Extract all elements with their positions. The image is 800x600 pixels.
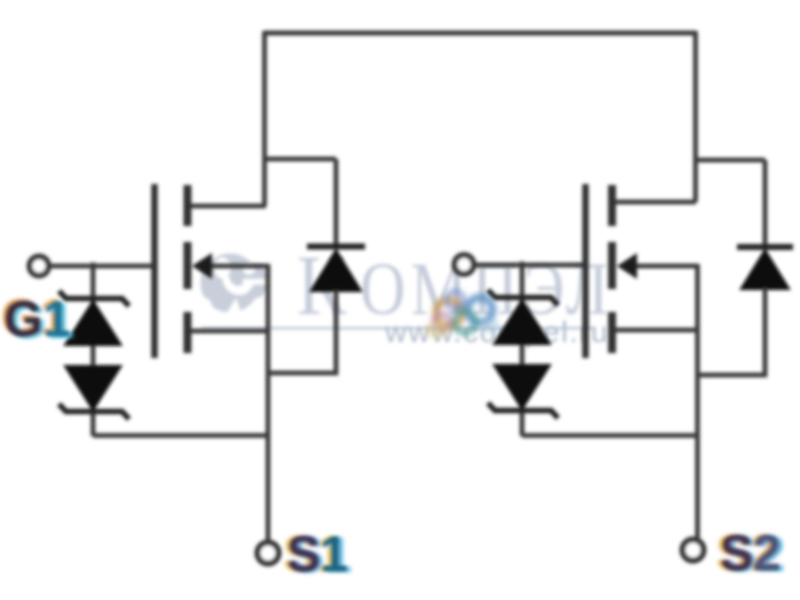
wire: right bottom return xyxy=(522,433,698,438)
wire: left drain vertical xyxy=(262,31,267,206)
terminal G1 circle xyxy=(30,257,49,276)
label S2 xyxy=(716,525,785,582)
wire: Q2 body wire xyxy=(630,264,698,269)
diode D2 triangle xyxy=(741,250,789,289)
transistor Q2 bottom channel dash xyxy=(608,312,616,353)
zener stack Z1 vertical wire xyxy=(91,263,96,437)
transistor Q2 gate bar xyxy=(582,184,589,358)
watermark logo circle xyxy=(190,254,272,319)
diode D1 bottom wire xyxy=(268,290,336,373)
terminal S2 circle xyxy=(683,540,704,561)
terminal G2 circle xyxy=(455,255,474,274)
label G2 (heavily blurred, rainbow) xyxy=(424,292,500,339)
zener Z1a triangle xyxy=(65,301,121,345)
diode D1 top wire xyxy=(334,159,339,247)
zener Z1b anode bar with bent ends xyxy=(59,404,129,419)
wire: right source vertical xyxy=(695,264,700,538)
diode D1 triangle xyxy=(311,250,361,291)
zener stack Z2 vertical wire xyxy=(520,262,525,437)
wire: Q2 source stub xyxy=(616,328,698,333)
wire: Q1 body wire xyxy=(205,264,268,269)
wire: left source vertical xyxy=(266,264,271,541)
zener Z2a cathode bar with bent ends xyxy=(488,290,558,305)
wire: right drain vertical xyxy=(693,31,698,202)
zener Z1b triangle xyxy=(65,366,121,410)
watermark group (under schematic) xyxy=(190,239,614,349)
svg-text:G: G xyxy=(4,291,43,347)
svg-text:1: 1 xyxy=(320,526,348,582)
transistor Q1 middle channel dash xyxy=(184,242,192,289)
Q2 body arrow xyxy=(617,253,637,279)
top rail wire (common drain) xyxy=(264,31,696,36)
transistor Q1 top channel dash xyxy=(184,185,192,226)
wire: left diode branch xyxy=(265,157,337,162)
Q1 body arrow xyxy=(192,253,212,279)
wire: right diode branch xyxy=(696,158,766,163)
transistor Q2 top channel dash xyxy=(608,185,616,226)
wire: Q1 drain stub xyxy=(191,204,266,209)
transistor Q1 bottom channel dash xyxy=(184,312,192,353)
terminal S1 circle xyxy=(258,543,279,564)
diode D2 cathode bar xyxy=(737,244,793,250)
zener Z2a triangle xyxy=(494,300,550,344)
terminal G2 wire xyxy=(475,263,583,268)
svg-text:S2: S2 xyxy=(721,527,780,580)
svg-text:1: 1 xyxy=(43,291,71,347)
wire: left bottom return xyxy=(93,433,268,438)
label G1 xyxy=(1,289,75,349)
zener Z1a cathode bar with bent ends xyxy=(59,291,129,306)
diode D2 top wire xyxy=(763,160,768,248)
wire: Q1 source stub xyxy=(191,329,268,334)
terminal G1 wire xyxy=(50,264,152,269)
wire: Q2 drain stub xyxy=(616,200,696,205)
transistor Q1 gate bar xyxy=(151,184,158,358)
diode D2 bottom wire xyxy=(697,288,765,375)
diode D1 cathode bar xyxy=(307,244,365,250)
zener Z2b anode bar with bent ends xyxy=(488,403,558,418)
label S1 xyxy=(283,526,352,583)
transistor Q2 middle channel dash xyxy=(608,242,616,289)
svg-text:S: S xyxy=(288,528,320,581)
watermark underline xyxy=(202,327,594,329)
zener Z2b triangle xyxy=(494,365,550,409)
